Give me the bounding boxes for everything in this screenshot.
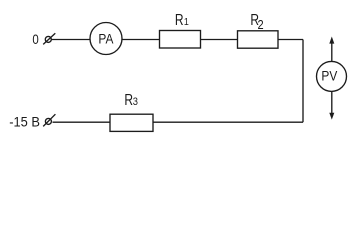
wire top horizontal [52,39,304,41]
arrowhead down [329,113,334,120]
wire right vertical [302,40,304,123]
svg-text:1: 1 [184,16,189,28]
arrowhead up [329,37,334,44]
svg-text:3: 3 [133,96,138,108]
resistor R2 [238,31,279,48]
svg-text:0: 0 [32,31,38,47]
terminal input 0 [45,36,51,42]
arrow up above PV [331,40,333,61]
svg-text:-15 В: -15 В [9,114,40,130]
svg-text:R: R [124,90,133,108]
resistor R1 [160,31,201,49]
svg-text:PA: PA [98,31,113,47]
resistor R3 [110,114,153,131]
voltmeter PV [317,61,347,91]
svg-text:R: R [175,10,184,28]
wire bottom horizontal [53,121,304,123]
arrow down below PV [331,91,333,115]
ammeter PA [90,23,122,55]
terminal input -15V [45,118,51,124]
svg-text:2: 2 [258,17,264,32]
svg-text:PV: PV [321,67,337,83]
